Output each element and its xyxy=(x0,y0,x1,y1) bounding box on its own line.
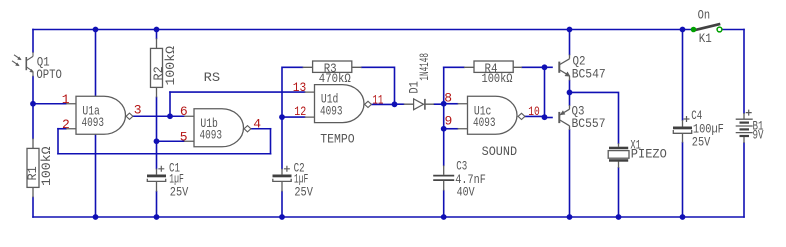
junction bottom C4 xyxy=(680,214,686,220)
junction top rail VDD xyxy=(93,27,99,33)
junction bottom Q3 xyxy=(567,214,573,220)
svg-text:6: 6 xyxy=(180,104,188,119)
junction bottom C1 xyxy=(154,214,160,220)
wire C3 bottom xyxy=(443,191,445,217)
svg-text:PIEZO: PIEZO xyxy=(631,146,667,161)
wire Q2 base xyxy=(545,66,553,68)
wire VDD pin line above U1a xyxy=(95,30,97,97)
wire feedback bottom horizontal xyxy=(58,153,271,155)
wire Q2 emitter down xyxy=(569,81,571,93)
diode D1 xyxy=(404,99,434,110)
svg-text:12: 12 xyxy=(294,104,306,119)
wire C4 bottom xyxy=(682,143,684,217)
svg-text:R1: R1 xyxy=(25,166,40,180)
capacitor C3 xyxy=(433,165,454,190)
wire VSS pin line below U1a xyxy=(95,134,97,217)
capacitor C4 xyxy=(673,116,692,143)
transistor Q3 xyxy=(559,105,569,130)
svg-text:4093: 4093 xyxy=(200,128,223,143)
wire U1a out to U1b pin6 xyxy=(133,115,184,117)
wire R2 bottom to C1 top xyxy=(156,97,158,168)
wire emitter node to piezo xyxy=(570,92,619,143)
svg-text:25V: 25V xyxy=(692,134,711,149)
junction node Q3 base xyxy=(542,114,548,120)
svg-text:3: 3 xyxy=(134,102,142,117)
wire Q3 emitter up xyxy=(569,92,571,105)
junction node emitters xyxy=(567,90,573,96)
wire vertical R4 corner through pin8 pin9 xyxy=(443,67,445,128)
svg-text:BC557: BC557 xyxy=(572,116,606,131)
wire top rail left of switch xyxy=(33,29,694,31)
svg-text:RS: RS xyxy=(204,70,221,85)
battery B1 xyxy=(736,110,753,143)
junction node output11 xyxy=(392,101,398,107)
junction node pin12 xyxy=(279,114,285,120)
svg-text:13: 13 xyxy=(293,80,307,95)
nand gate U1b xyxy=(184,109,251,147)
wire R3 right vertical xyxy=(362,67,395,104)
svg-text:D1: D1 xyxy=(406,81,421,94)
wire Q3 collector to ground xyxy=(569,130,571,217)
nand gate U1c xyxy=(458,96,525,134)
svg-text:100kΩ: 100kΩ xyxy=(39,146,54,186)
wire feedback vertical at x270 xyxy=(270,129,272,154)
wire top rail right of switch xyxy=(720,29,745,31)
switch K1 xyxy=(691,24,722,32)
wire battery minus to bottom rail xyxy=(743,143,745,217)
svg-text:TEMPO: TEMPO xyxy=(320,131,355,146)
nand gate U1a xyxy=(66,96,133,134)
junction node Q2 base xyxy=(542,64,548,70)
resistor R3 xyxy=(313,61,352,72)
wire C2 bottom xyxy=(281,192,283,217)
svg-text:1N4148: 1N4148 xyxy=(417,53,432,81)
svg-text:4: 4 xyxy=(253,117,261,132)
wire R2 top xyxy=(156,30,158,39)
svg-text:K1: K1 xyxy=(699,31,712,46)
wire to U1d pin13 xyxy=(170,91,305,93)
svg-text:9: 9 xyxy=(444,113,452,128)
svg-text:4093: 4093 xyxy=(473,115,496,130)
junction node pin1 xyxy=(30,101,36,107)
svg-text:OPTO: OPTO xyxy=(36,67,62,82)
junction top rail C4 xyxy=(680,27,686,33)
wire D1 cathode to node xyxy=(434,103,444,105)
wire Q1 emitter to R1 xyxy=(32,77,34,139)
wire C4 top xyxy=(682,30,684,121)
junction node pin8 xyxy=(441,101,447,107)
nand gate U1d xyxy=(305,85,372,123)
wire R4 left horizontal xyxy=(444,66,464,68)
junction node pin9 xyxy=(441,126,447,132)
svg-text:4093: 4093 xyxy=(320,103,343,118)
svg-text:25V: 25V xyxy=(294,184,313,199)
resistor R1 xyxy=(27,148,39,187)
wire left rail top to Q1 collector xyxy=(32,30,34,53)
wire Q3 base xyxy=(545,117,553,119)
wire node to D1 anode xyxy=(395,103,404,105)
wire R1 bottom to ground rail xyxy=(32,197,34,217)
resistor R2 xyxy=(151,48,163,87)
svg-text:4093: 4093 xyxy=(82,115,105,130)
junction top rail Q2 collector xyxy=(567,27,573,33)
wire U1d pin12 xyxy=(282,116,305,118)
svg-text:SOUND: SOUND xyxy=(482,144,518,159)
wire U1a pin1 xyxy=(33,103,66,105)
svg-text:470kΩ: 470kΩ xyxy=(319,71,351,86)
junction node pin6 xyxy=(167,113,173,119)
svg-text:9V: 9V xyxy=(753,127,764,142)
svg-text:25V: 25V xyxy=(170,184,189,199)
wire U1b pin5 xyxy=(157,140,185,142)
svg-text:On: On xyxy=(698,7,711,22)
junction bottom piezo xyxy=(616,214,622,220)
svg-text:100kΩ: 100kΩ xyxy=(482,71,513,86)
junction bottom C2 xyxy=(279,214,285,220)
wire R3 left vertical / C2 top xyxy=(282,67,303,168)
svg-text:2: 2 xyxy=(62,117,70,132)
junction bottom VSS xyxy=(93,214,99,220)
svg-text:40V: 40V xyxy=(457,184,475,199)
junction top rail R2 xyxy=(154,27,160,33)
svg-text:5: 5 xyxy=(180,129,188,144)
junction node pin5 xyxy=(154,138,160,144)
wire node up from pin6 xyxy=(169,92,171,116)
capacitor C1 xyxy=(147,166,166,192)
svg-text:8: 8 xyxy=(444,91,452,106)
transistor Q2 xyxy=(559,55,570,81)
wire Q2 collector to top rail xyxy=(569,30,571,55)
wire base vertical Q2 to Q3 xyxy=(544,67,546,117)
wire U1a pin2 stub xyxy=(58,128,66,130)
junction bottom C3 xyxy=(441,214,447,220)
transistor Q1 opto symbol xyxy=(12,52,33,77)
wire pin9 to C3 xyxy=(443,129,445,166)
svg-text:11: 11 xyxy=(372,93,383,108)
wire right drop to battery xyxy=(743,30,745,114)
wire piezo bottom xyxy=(618,168,620,217)
svg-text:100kΩ: 100kΩ xyxy=(163,46,178,86)
wire feedback vertical at x58 xyxy=(57,129,59,154)
resistor R4 xyxy=(474,61,513,72)
wire U1c pin8 xyxy=(444,103,458,105)
wire U1c pin9 xyxy=(444,128,458,130)
wire U1c output 10 xyxy=(525,115,544,117)
wire C1 bottom xyxy=(156,192,158,217)
capacitor C2 xyxy=(273,166,292,192)
wire U1b output to feedback xyxy=(251,128,270,130)
piezo X1 xyxy=(608,143,629,168)
wire R4 right xyxy=(522,66,545,68)
wire bottom rail xyxy=(33,216,744,218)
wire U1d output 11 xyxy=(372,103,395,105)
svg-text:10: 10 xyxy=(528,104,540,119)
svg-text:BC547: BC547 xyxy=(572,66,606,81)
svg-text:1: 1 xyxy=(62,92,70,107)
